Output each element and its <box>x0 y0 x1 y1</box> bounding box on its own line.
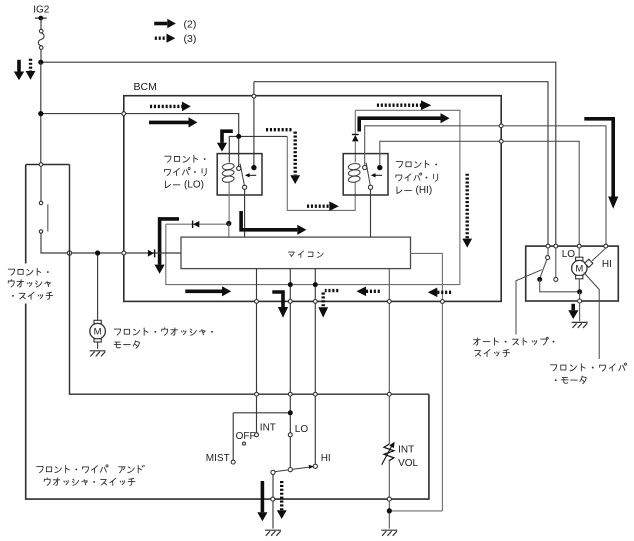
wire fuse to junction <box>40 49 42 62</box>
node switch box top circles <box>255 392 392 396</box>
relay box LO <box>217 154 262 195</box>
wire INT VOL column <box>388 269 390 444</box>
ground INT VOL <box>381 530 397 536</box>
label microcomputer <box>288 251 323 258</box>
svg-text:LO: LO <box>295 424 309 435</box>
legend arrow (2) solid <box>154 18 196 30</box>
flow arrow dashed corner (between relays) <box>266 130 300 184</box>
svg-text:HI: HI <box>321 453 331 464</box>
switch washer (contacts and lever) <box>26 163 70 253</box>
flow arrow solid down (left) <box>14 60 24 80</box>
wire HI relay output to microcomputer <box>370 189 372 237</box>
flow arrow dashed down (switch ground) <box>277 481 287 519</box>
label washer switch <box>4 264 59 304</box>
flow arrow solid corner (HI relay out) <box>359 113 449 131</box>
wire INT column <box>256 269 258 433</box>
node BCM bottom circles <box>255 300 445 304</box>
flow arrow solid corner (into LO relay) <box>217 131 233 151</box>
switch HI relay (pivot, lever, contact) <box>363 163 383 190</box>
label washer motor <box>114 328 213 349</box>
node junction y113 <box>38 111 43 116</box>
node junction motor ground <box>577 289 582 294</box>
ground washer motor <box>90 351 106 357</box>
svg-text:(3): (3) <box>184 33 197 45</box>
flow arrow solid corner (left, into microcomputer area) <box>155 219 180 274</box>
flow arrow solid corner down (LO signal) <box>272 292 288 318</box>
svg-text:MIST: MIST <box>206 453 230 464</box>
wire LO coil bottom diode line <box>166 223 227 225</box>
BCM box <box>124 81 501 301</box>
svg-text:OFF: OFF <box>236 431 256 442</box>
flow arrow solid corner (above microcomputer) <box>239 211 306 235</box>
label front wiper motor with leader <box>550 273 626 384</box>
wire INT VOL to ground <box>388 501 390 528</box>
svg-text:INT: INT <box>260 423 276 434</box>
node box bottom circle (ground line) <box>271 497 275 501</box>
label auto-stop switch with leader <box>474 270 555 357</box>
svg-text:(LO): (LO) <box>184 179 204 190</box>
label relay HI <box>396 161 438 196</box>
svg-text:VOL: VOL <box>398 458 418 469</box>
flow arrow dashed right (below HI relay) <box>307 201 339 211</box>
node junction LO coil bottom <box>226 221 231 226</box>
labels wiper switch positions <box>206 423 331 465</box>
wire INT VOL ground to HI coil return <box>389 510 442 512</box>
wire rail y81 (auto-stop feed) <box>254 82 548 246</box>
switch auto-stop <box>537 248 579 292</box>
relay box HI <box>343 154 388 195</box>
svg-text:M: M <box>575 264 583 275</box>
label wiper and washer switch <box>37 465 145 485</box>
switch LO relay (pivot, lever, contact) <box>237 164 257 190</box>
wire LO column <box>289 269 291 468</box>
node junction INT VOL ground <box>387 508 392 513</box>
flow arrow solid right (BCM inlet) <box>149 117 197 127</box>
legend arrow (3) dashed <box>155 33 197 45</box>
node junction washer switch <box>67 251 71 255</box>
diode D (HI coil top) <box>352 110 359 162</box>
fuse IG2 (terminal bar) <box>35 16 47 21</box>
wire HI coil-top route to ground via x460 <box>355 110 460 284</box>
node BCM right edge circles <box>499 124 503 143</box>
svg-text:IG2: IG2 <box>33 4 50 15</box>
flow arrow dashed down (right of BCM) <box>462 174 472 248</box>
svg-text:HI: HI <box>602 259 612 270</box>
flow arrow dashed right (BCM inlet) <box>150 102 191 112</box>
wire microcomputer right to ground column <box>411 253 443 511</box>
flow arrow dashed left (mid) <box>357 287 381 297</box>
node box bottom circle (INT VOL) <box>387 497 391 501</box>
wire LO coil bottom exit <box>228 182 230 221</box>
wire wiper common to ground <box>272 475 274 529</box>
node motor box bottom circle <box>578 299 582 303</box>
resistor variable INT VOL <box>382 442 419 498</box>
diode D (LO coil, pointing left) <box>193 221 200 229</box>
motor M washer <box>90 320 106 349</box>
fuse element squiggle <box>38 29 44 49</box>
wire x41 down to washer switch <box>40 62 42 163</box>
wire LO relay contact feed x254 <box>253 82 255 165</box>
switch wiper (MIST/OFF/INT/LO/HI) <box>231 410 317 474</box>
flow arrow dashed left (near BCM right) <box>428 288 452 298</box>
wire HI coil bottom route (x287 down, right, up) <box>287 136 355 210</box>
flow arrow solid down (switch ground) <box>257 481 267 521</box>
flow arrow solid right (below microcomputer) <box>185 286 231 296</box>
wire LO relay output to microcomputer <box>244 189 246 237</box>
flow arrow solid down (motor ground) <box>568 304 578 319</box>
wire LO coil top to junction y136 <box>229 136 287 162</box>
wire washer motor drop <box>97 253 99 320</box>
node junction IG2 y62 <box>38 60 43 65</box>
node motor box top circles <box>546 244 608 248</box>
motor box (front wiper motor) <box>526 246 619 301</box>
label relay LO <box>164 155 206 190</box>
node IG2 label <box>33 4 50 15</box>
svg-text:INT: INT <box>398 445 414 456</box>
svg-text:M: M <box>94 327 102 338</box>
diode D (washer input, pointing right) <box>148 249 155 257</box>
switch box outline (front wiper and washer switch) <box>26 165 429 500</box>
svg-text:(2): (2) <box>184 18 197 30</box>
coil LO relay <box>222 163 235 183</box>
svg-text:(HI): (HI) <box>416 185 433 196</box>
wire motor to ground <box>579 292 581 321</box>
ground wiper switch <box>265 530 281 536</box>
coil HI relay <box>348 163 361 183</box>
flow arrow solid corner (top right, to motor) <box>584 119 618 209</box>
node BCM top circle <box>252 94 256 98</box>
flow arrow dashed corner down (HI signal) <box>318 291 338 318</box>
wire HI pivot to motor HI brush (y126) <box>365 126 606 246</box>
node junctions y284 <box>288 282 318 287</box>
ground wiper motor <box>572 322 588 328</box>
wire gray route x165 to y284 <box>166 224 460 284</box>
svg-text:BCM: BCM <box>134 81 157 93</box>
wire IG2 top <box>40 18 42 29</box>
microcomputer box <box>181 237 411 269</box>
wire HI contact to motor LO brush (y141) <box>380 141 579 246</box>
wire HI column <box>314 269 316 465</box>
wire LO coil bottom to microcomputer <box>228 224 230 238</box>
wire washer switch line y253 <box>70 252 182 254</box>
motor M wiper <box>562 248 612 292</box>
node BCM left edge circles <box>122 112 126 255</box>
flow arrow dashed right (above HI relay) <box>377 100 431 110</box>
svg-text:LO: LO <box>562 249 576 260</box>
node junction LO coil/pivot y136 <box>236 134 241 139</box>
wire IG2 rail y62 to auto-stop column <box>41 62 556 246</box>
node junction washer tap <box>95 250 100 255</box>
wire y113 into BCM to LO relay pivot <box>41 114 239 167</box>
flow arrow dashed down (left) <box>26 59 36 80</box>
